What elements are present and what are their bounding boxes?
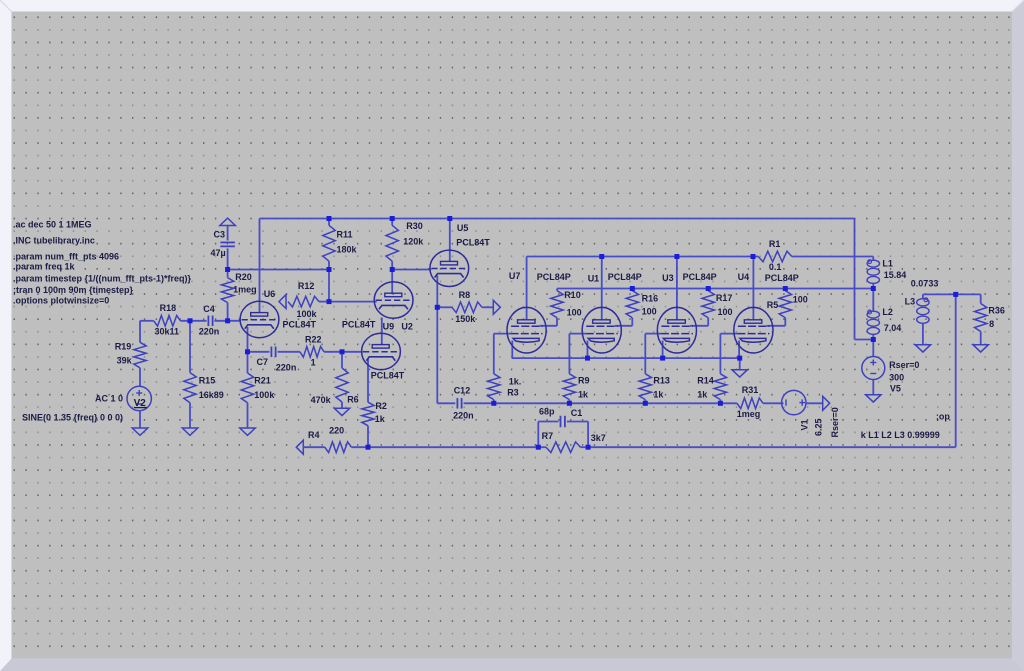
svg-text:220: 220	[329, 425, 344, 435]
svg-text:300: 300	[889, 372, 904, 382]
svg-text:220n: 220n	[276, 362, 297, 372]
svg-text:47µ: 47µ	[211, 248, 226, 258]
svg-text:R36: R36	[988, 306, 1005, 316]
svg-text:U3: U3	[662, 273, 674, 283]
svg-text:R13: R13	[653, 375, 670, 385]
svg-text:C3: C3	[214, 229, 226, 239]
svg-text:PCL84T: PCL84T	[283, 319, 317, 329]
svg-text:1k: 1k	[653, 389, 664, 399]
svg-text:R21: R21	[254, 375, 271, 385]
svg-text:R10: R10	[564, 290, 581, 300]
svg-text:1k: 1k	[578, 389, 589, 399]
svg-text:R11: R11	[337, 229, 353, 239]
svg-text:U7: U7	[509, 271, 521, 281]
svg-text:100: 100	[718, 307, 733, 317]
svg-text:L1: L1	[882, 259, 893, 269]
svg-text:R22: R22	[305, 335, 322, 345]
svg-text:U1: U1	[588, 274, 600, 284]
svg-text:39k: 39k	[117, 355, 133, 365]
svg-text:C4: C4	[203, 304, 215, 314]
svg-text:68p: 68p	[539, 407, 555, 417]
svg-text:180k: 180k	[337, 244, 358, 254]
svg-text:1k: 1k	[697, 389, 708, 399]
svg-text:R5: R5	[767, 300, 779, 310]
svg-text:L2: L2	[882, 307, 893, 317]
svg-text:.INC tubelibrary.inc: .INC tubelibrary.inc	[13, 236, 95, 246]
svg-text:k L1 L2 L3 0.99999: k L1 L2 L3 0.99999	[861, 430, 940, 440]
svg-text:R8: R8	[459, 290, 471, 300]
svg-text:R6: R6	[347, 394, 359, 404]
svg-text:R4: R4	[308, 430, 320, 440]
svg-text:.param num_fft_pts 4096: .param num_fft_pts 4096	[13, 252, 119, 262]
svg-text:R20: R20	[235, 272, 252, 282]
svg-text:PCL84T: PCL84T	[456, 238, 490, 248]
svg-text:R15: R15	[199, 375, 216, 385]
svg-text:15.84: 15.84	[884, 270, 907, 280]
svg-text:V1: V1	[800, 419, 810, 430]
svg-text:R19: R19	[115, 341, 132, 351]
svg-text:PCL84P: PCL84P	[608, 272, 642, 282]
svg-text:U6: U6	[264, 289, 276, 299]
svg-text:C7: C7	[257, 357, 269, 367]
svg-text:PCL84P: PCL84P	[765, 273, 799, 283]
svg-text:7.04: 7.04	[884, 323, 902, 333]
svg-text:;op: ;op	[936, 411, 950, 421]
svg-text:R12: R12	[298, 281, 315, 291]
svg-text:.options plotwinsize=0: .options plotwinsize=0	[13, 296, 109, 306]
svg-text:R3: R3	[507, 388, 519, 398]
svg-text:.ac dec 50 1 1MEG: .ac dec 50 1 1MEG	[13, 220, 92, 230]
svg-text:R9: R9	[578, 375, 590, 385]
svg-text:120k: 120k	[403, 236, 424, 246]
svg-text:100k: 100k	[297, 309, 318, 319]
svg-text:1meg: 1meg	[737, 409, 761, 419]
svg-text:100k: 100k	[254, 390, 275, 400]
svg-text:R17: R17	[716, 293, 733, 303]
svg-text:1k: 1k	[375, 414, 386, 424]
svg-text:100: 100	[642, 307, 657, 317]
svg-text:Rser=0: Rser=0	[830, 407, 840, 437]
svg-text:U2: U2	[401, 321, 413, 331]
svg-text:3k7: 3k7	[591, 433, 606, 443]
svg-text:6.25: 6.25	[814, 418, 824, 436]
svg-text:C1: C1	[571, 408, 583, 418]
svg-text:1: 1	[311, 357, 316, 367]
svg-text:Rser=0: Rser=0	[889, 360, 919, 370]
svg-text:R18: R18	[160, 303, 177, 313]
svg-text:.param timestep {1/((num_fft_p: .param timestep {1/((num_fft_pts-1)*freq…	[13, 274, 192, 284]
svg-text:220n: 220n	[453, 410, 474, 420]
svg-text:100: 100	[567, 307, 582, 317]
svg-text:150k: 150k	[455, 314, 476, 324]
svg-text:U5: U5	[457, 223, 469, 233]
svg-text:U4: U4	[738, 272, 750, 282]
svg-text:R7: R7	[542, 431, 554, 441]
svg-text:30k11: 30k11	[155, 327, 180, 337]
svg-text:;tran 0 100m 90m {timestep}: ;tran 0 100m 90m {timestep}	[13, 285, 134, 295]
svg-text:16k89: 16k89	[199, 390, 224, 400]
svg-text:470k: 470k	[311, 395, 332, 405]
svg-text:R30: R30	[406, 221, 423, 231]
svg-text:R14: R14	[697, 376, 714, 386]
svg-text:R16: R16	[642, 294, 659, 304]
svg-text:AC 1 0: AC 1 0	[95, 394, 123, 404]
svg-text:0.1: 0.1	[769, 262, 782, 272]
svg-text:PCL84T: PCL84T	[342, 320, 376, 330]
svg-text:8: 8	[989, 319, 994, 329]
svg-text:C12: C12	[454, 385, 471, 395]
svg-text:R31: R31	[742, 385, 759, 395]
svg-text:220n: 220n	[199, 327, 220, 337]
svg-text:.param freq 1k: .param freq 1k	[13, 262, 76, 272]
svg-text:0.0733: 0.0733	[911, 279, 939, 289]
svg-text:PCL84P: PCL84P	[683, 272, 717, 282]
svg-text:PCL84T: PCL84T	[371, 371, 405, 381]
svg-text:U9: U9	[383, 321, 395, 331]
svg-text:V5: V5	[890, 384, 901, 394]
svg-text:PCL84P: PCL84P	[537, 272, 571, 282]
svg-text:SINE(0 1.35 {freq} 0 0 0): SINE(0 1.35 {freq} 0 0 0)	[22, 413, 123, 423]
svg-text:R2: R2	[375, 401, 387, 411]
svg-text:1k.: 1k.	[509, 377, 522, 387]
svg-text:100: 100	[793, 294, 808, 304]
svg-text:L3: L3	[905, 297, 916, 307]
svg-text:R1: R1	[769, 239, 781, 249]
svg-text:1meg: 1meg	[233, 285, 257, 295]
